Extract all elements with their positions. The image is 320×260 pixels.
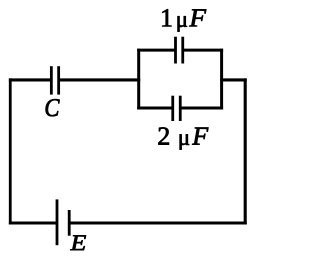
wire: box bottom-left segment (137, 107, 173, 110)
value label "2 uF" F glyph (192, 128, 208, 145)
wire: box top-left segment (137, 49, 175, 52)
capacitor 1uF left plate (174, 37, 177, 64)
wire: right horizontal connector (220, 78, 247, 81)
battery E left plate (long) (56, 199, 59, 245)
wire: top-left horizontal segment (9, 78, 52, 81)
value label "1 uF" digit 1 (162, 9, 171, 26)
value label "2 uF" mu glyph (180, 134, 189, 149)
value label "1 uF" mu glyph (178, 16, 187, 31)
wire: box bottom-right segment (180, 107, 223, 110)
wire: parallel box right side (220, 49, 223, 110)
value label "2 uF" digit 2 (158, 127, 168, 144)
capacitor C left plate (50, 66, 53, 94)
wire: right vertical side (244, 78, 247, 224)
wire: parallel box left side (137, 49, 140, 110)
value label "1 uF" F glyph (189, 9, 206, 26)
wire: left vertical side (9, 78, 12, 224)
designator label C (46, 99, 60, 116)
capacitor 1uF right plate (181, 37, 184, 64)
capacitor 2uF left plate (171, 96, 174, 121)
capacitor C right plate (57, 66, 60, 94)
battery E right plate (short) (68, 210, 71, 236)
wire: bottom-right horizontal segment (69, 222, 247, 225)
wire: box top-right segment (183, 49, 223, 52)
wire: top horizontal segment to parallel box (59, 78, 141, 81)
capacitor 2uF right plate (179, 96, 182, 121)
designator label E (70, 235, 86, 250)
wire: bottom-left horizontal segment (9, 222, 57, 225)
